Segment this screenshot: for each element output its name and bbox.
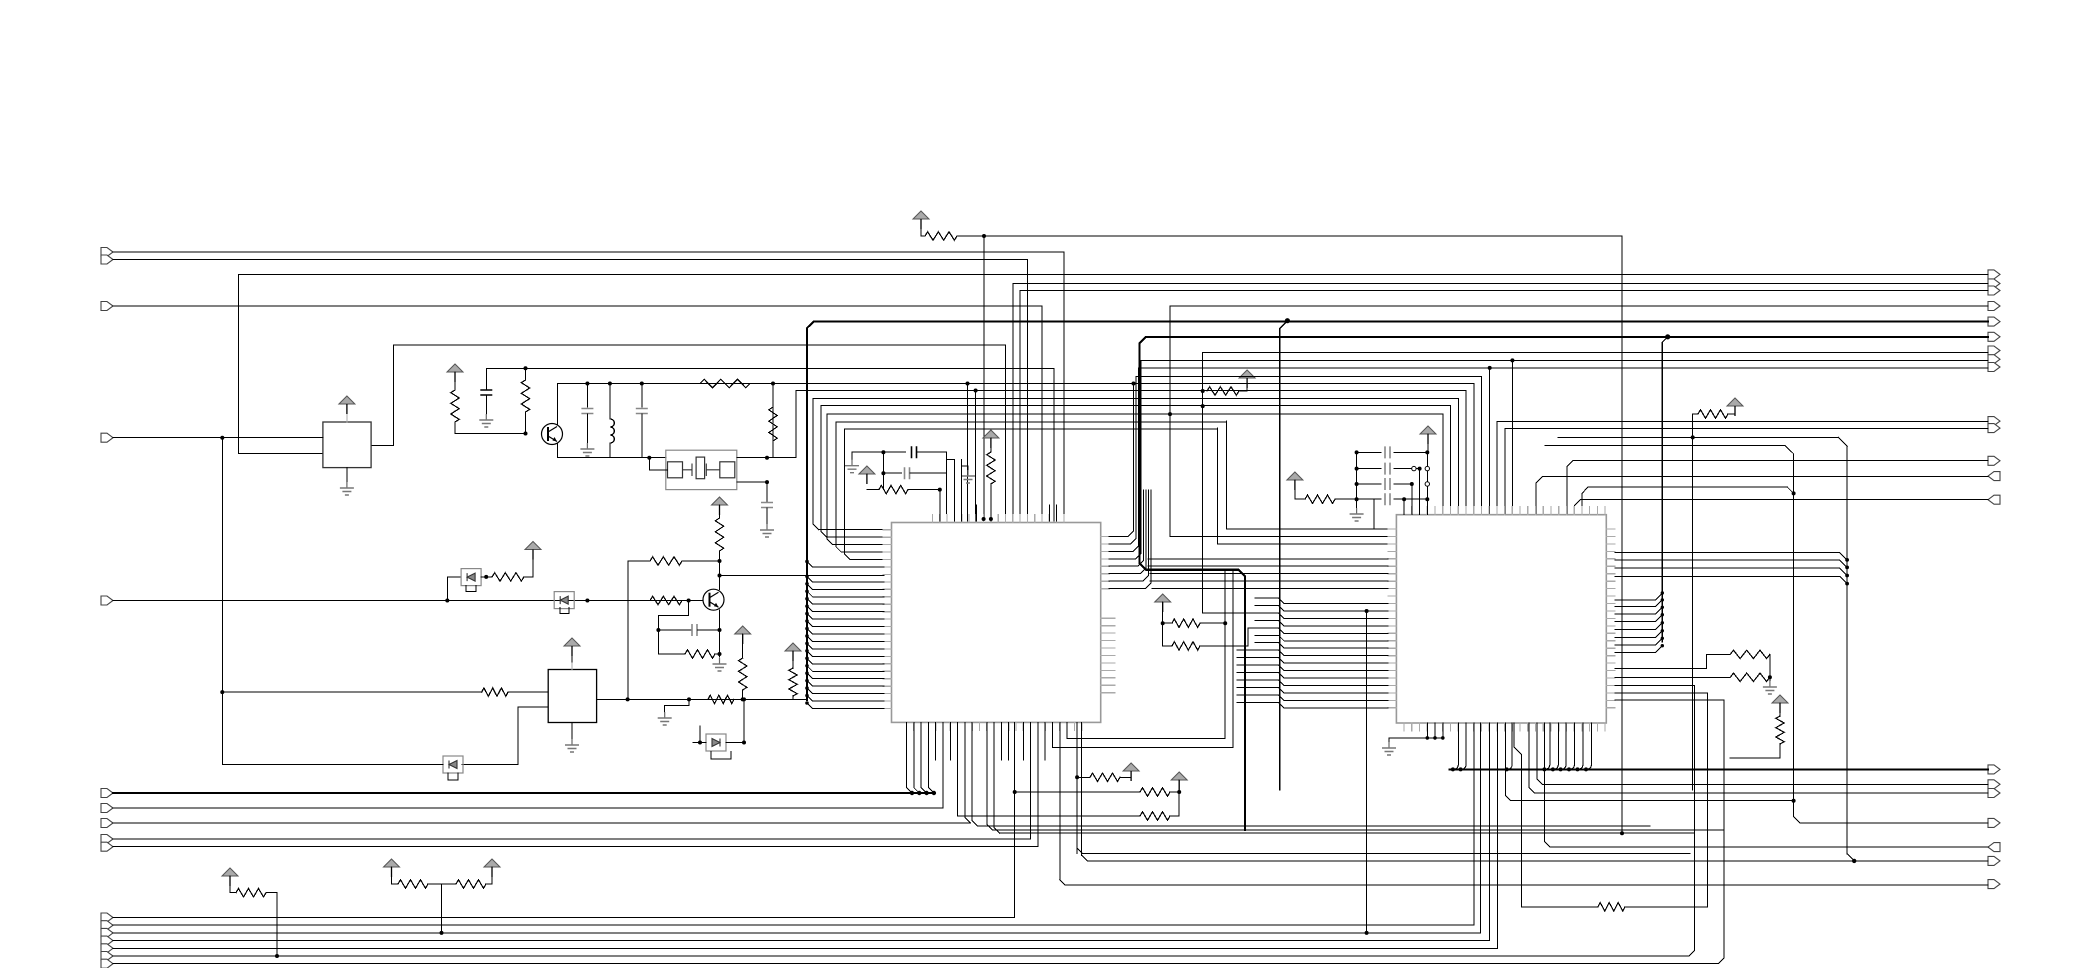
resistor R31 [1172,642,1200,650]
pin U4 top [1473,507,1475,515]
wire [812,399,814,525]
transistor Q1 [542,424,563,445]
pin U4 top [1511,507,1513,515]
pin U4 left [1388,595,1397,597]
junction [1845,566,1849,570]
wire [447,576,461,578]
capacitor C5 [692,624,697,636]
pin U4 right [1606,588,1615,590]
junction [1620,831,1624,835]
wire [682,560,720,562]
wire [1575,500,1989,515]
wire [972,722,978,826]
wire [508,691,548,693]
pin U4 left [1388,565,1397,567]
junction [1285,318,1290,323]
pin U4 left [1388,684,1397,686]
wire [1373,499,1375,529]
wire [807,629,884,635]
ic U3 (small box) [548,670,596,723]
port Q14 (right edge) [1988,495,2000,504]
ground [1769,681,1771,687]
wire [1150,580,1388,582]
wire [1442,723,1444,738]
port P4 (left edge) [101,433,113,442]
wire [1248,627,1279,629]
port P14 (left edge) [101,936,113,945]
wire [942,722,944,808]
wire [1279,658,1388,664]
junction [585,599,589,603]
junction [220,436,224,440]
wire [1545,723,1989,847]
wire [1237,686,1279,688]
wire [835,422,837,547]
pin U4 left [1388,603,1397,605]
wire [1615,646,1663,653]
wire [1394,451,1427,453]
pin U4 top [1457,507,1459,515]
wire [1615,700,1724,964]
resistor R7 [715,518,723,551]
pin U4 left [1388,662,1397,664]
wire [772,384,774,458]
pin U4 right [1606,699,1615,701]
junction [765,456,769,460]
junction [910,791,914,795]
wire [1427,434,1429,452]
junction [1459,767,1463,771]
pin U4 right [1606,670,1615,672]
junction [656,628,660,632]
pin U4 right [1606,603,1615,605]
wire [1357,451,1381,453]
wire [1246,378,1248,391]
pin U4 top [1558,507,1560,515]
wire [1026,260,1028,522]
resistor R3 [451,390,459,422]
wire [346,468,348,482]
pin U1 bottom [979,722,981,730]
wire [883,472,901,474]
port P7 (left edge) [101,804,113,813]
wire [1615,568,1847,575]
pin U1 bottom [1008,722,1010,730]
wire [1279,687,1388,693]
ground [485,414,487,420]
power arrow [785,643,801,651]
junction [805,597,809,601]
wire net I [113,917,1015,919]
wire [1141,359,1988,361]
wire [1838,437,1847,446]
pin U4 bottom [1465,723,1467,731]
wire [609,443,611,458]
wire [967,384,969,522]
port P17 (left edge) [101,959,113,968]
wire [462,707,548,764]
junction [742,741,746,745]
wire [1019,291,1021,522]
resistor R24 [1730,673,1770,681]
junction [1661,591,1664,594]
ground [851,460,853,466]
wire [1489,368,1491,514]
pin U1 left [883,693,892,695]
wire [1394,498,1427,500]
wire [1769,677,1771,681]
pin U1 top [1048,515,1050,523]
wire [1279,620,1388,626]
wire [807,621,884,627]
wire bypass [466,586,476,592]
wire thick rail 3 [1450,768,1988,770]
wire [1120,771,1131,777]
pin U4 bottom [1426,723,1428,731]
diode D2 [554,592,574,609]
port Q2 (right edge) [1988,279,2000,288]
junction [1792,491,1796,495]
pin U1 right [1101,558,1110,560]
power arrow U3 [564,638,580,646]
wire [371,345,1005,521]
ic U1 (QFP-80) [892,523,1101,723]
power arrow [859,466,875,474]
wire [807,636,884,642]
pin U1 bottom [913,722,915,730]
port P16 (left edge) [101,952,113,961]
pin U4 bottom [1535,723,1537,731]
power arrow [1287,472,1303,480]
pin U1 bottom [906,722,908,730]
wire [1239,390,1247,392]
wire bus M4 [836,421,1227,423]
pin U4 right [1606,662,1615,664]
ic U2 (small box) [323,422,371,468]
resistor R27 [236,889,266,897]
wire [1077,776,1090,778]
pin U4 bottom [1565,723,1567,731]
pin U4 bottom [1496,723,1498,731]
pin U4 top [1542,507,1544,515]
port Q12 (right edge) [1988,456,2000,465]
wire [1109,490,1149,581]
capacitor C3 [636,409,648,414]
junction [1661,606,1664,609]
pin U1 bottom [1066,722,1068,730]
wire [239,452,323,454]
junction [805,589,809,593]
wire [1237,701,1279,703]
wire [1847,854,1854,861]
wire [1279,635,1388,641]
junction [1418,467,1422,471]
wire [1388,738,1390,742]
pin U4 top [1496,507,1498,515]
wire [1255,619,1279,621]
wire [1076,722,1078,853]
wire [921,235,925,237]
wire [1561,723,1567,769]
junction [1451,767,1455,771]
port P2 (left edge) [101,255,113,264]
wire [1461,723,1467,769]
wire [935,722,937,760]
pin U4 right [1606,625,1615,627]
junction [445,599,449,603]
port Q19 (right edge) [1988,843,2000,852]
junction [1510,358,1514,362]
wire [1545,446,1988,823]
wire [1505,723,1793,801]
wire [628,560,650,562]
port Q1 (right edge) [1988,270,2000,279]
wire [807,703,884,709]
pin U1 right [1101,536,1110,538]
wire [557,384,559,425]
port P5 (left edge) [101,596,113,605]
junction [989,517,993,521]
wire [1294,480,1296,492]
port P6 (left edge) [101,789,113,798]
pin U1 left [883,588,892,590]
resistor R12 [708,695,734,703]
pin U1 bottom [1052,722,1054,730]
pin U1 left [883,536,892,538]
wire [1621,236,1623,833]
wire [945,452,947,513]
wire [230,886,236,893]
diode D1 [461,569,481,586]
resistor R4 [521,380,529,412]
wire [807,561,884,567]
wire [428,883,442,885]
pin U1 top [1005,515,1007,523]
pin U4 right [1606,655,1615,657]
pin U1 top [939,515,941,523]
pin U4 top [1480,507,1482,515]
port Q7 (right edge) [1988,346,2000,355]
wire [1615,693,1708,907]
junction [805,657,809,661]
port P10 (left edge) [101,842,113,851]
wire [819,529,884,531]
wire [664,706,666,713]
pin U4 right [1606,632,1615,634]
power arrow [983,430,999,438]
wire [571,723,573,740]
pin U4 right [1606,535,1615,537]
pin U1 right [1101,588,1110,590]
power arrow [735,626,751,634]
pin U1 bottom [927,722,929,730]
pin U1 right nc [1101,662,1115,664]
pin U1 bottom [1015,722,1017,730]
wire [958,815,1140,817]
pin U4 top [1403,507,1405,515]
pin U4 top [1411,507,1413,515]
wire [807,681,884,687]
wire [975,391,977,522]
junction [1576,767,1580,771]
pin U4 right [1606,595,1615,597]
wire [641,414,643,458]
wire [1511,360,1513,514]
wire [1473,384,1475,514]
transistor Q2 [703,589,724,610]
pin U1 left [883,678,892,680]
wire [1169,306,1171,537]
wire [953,505,955,521]
wire [807,651,884,657]
wire bypass [711,752,731,760]
wire [1008,722,1010,760]
port Q4 (right edge) [1988,302,2000,311]
ground [586,443,588,449]
pin U1 left [883,663,892,665]
pin U4 top [1519,507,1521,515]
wire [1109,490,1144,566]
wire [1505,428,1988,430]
resistor R15 [482,688,508,696]
wire [1059,722,1061,879]
wire [1000,832,1694,834]
capacitor C9 [1385,463,1390,475]
resistor R19 [1140,812,1170,820]
wire [1022,722,1024,760]
wire [1615,685,1695,956]
port P13 (left edge) [101,928,113,937]
port Q3 (right edge) [1988,286,2000,295]
pin U1 right nc [1101,617,1115,619]
pin U1 bottom [1030,722,1032,730]
resistor R5 [700,379,750,387]
ground [766,524,768,530]
junction [1132,382,1136,386]
wire [222,764,443,766]
wire [1170,815,1179,817]
wire [1012,284,1014,522]
junction [1201,404,1205,408]
pin U4 top [1596,507,1598,515]
junction [1223,621,1227,625]
pin U1 left [883,626,892,628]
wire [1077,848,1690,854]
pin U4 right [1606,692,1615,694]
wire [975,505,977,521]
resistor R23 [1730,650,1770,658]
power arrow [1727,398,1743,406]
wire [1279,598,1388,604]
wire [1615,654,1730,668]
junction [1551,767,1555,771]
wire [807,584,884,590]
wire [1615,607,1663,614]
junction [805,604,809,608]
resistor R6 [769,407,777,441]
wire [1529,723,1988,793]
pin U4 top [1504,507,1506,515]
pin U4 top [1488,507,1490,515]
wire [1449,405,1451,514]
wire [1237,664,1279,666]
junction [1665,334,1670,339]
junction [1505,767,1509,771]
junction [1355,467,1359,471]
junction [220,690,224,694]
wire [442,883,457,885]
wire [992,829,1723,831]
wire [1730,744,1780,758]
junction [966,382,970,386]
pin U4 left [1388,677,1397,679]
wire [1366,611,1368,933]
wire net S5 [113,947,1498,949]
wire [1514,723,1522,907]
wire [1030,722,1032,839]
wire [719,610,721,657]
resistor R22 [1598,903,1625,911]
pin U1 bottom [1081,722,1083,730]
wire [1279,702,1388,708]
junction [974,389,978,393]
pin U1 bottom [942,722,944,730]
wire [1537,723,1988,784]
wire [766,508,768,524]
crystal X1 [666,450,737,489]
junction [608,382,612,386]
wire [1356,452,1358,508]
wire [1279,628,1388,634]
wire [1203,612,1279,614]
pin U1 top [1034,515,1036,523]
pin U4 top [1550,507,1552,515]
pin U4 top [1449,507,1451,515]
wire [229,876,231,886]
junction [524,366,528,370]
wire [1148,565,1388,567]
junction [275,954,279,958]
wire net J [113,838,1031,840]
pin U1 bottom [993,722,995,730]
wire [742,634,744,658]
wire [928,722,934,793]
wire [1150,573,1388,575]
pin U4 left [1388,640,1397,642]
junction [1661,637,1664,640]
wire [1442,414,1444,514]
junction [805,701,809,705]
capacitor C11 [1385,493,1390,505]
wire [1625,906,1708,908]
wire [845,554,851,560]
pin U1 top [953,515,955,523]
wire bus M5 [845,428,1218,430]
wire [1615,553,1847,560]
pin U4 left [1388,707,1397,709]
pin U1 top [961,515,963,523]
wire [1489,723,1491,941]
wire [1615,593,1663,600]
junction [982,234,986,238]
wire [1015,791,1140,793]
resistor R28 [398,880,428,888]
wire [1280,321,1288,790]
resistor R1 (top) [925,232,957,240]
wire [627,561,629,699]
wire [1237,657,1279,659]
wire [1357,483,1381,485]
